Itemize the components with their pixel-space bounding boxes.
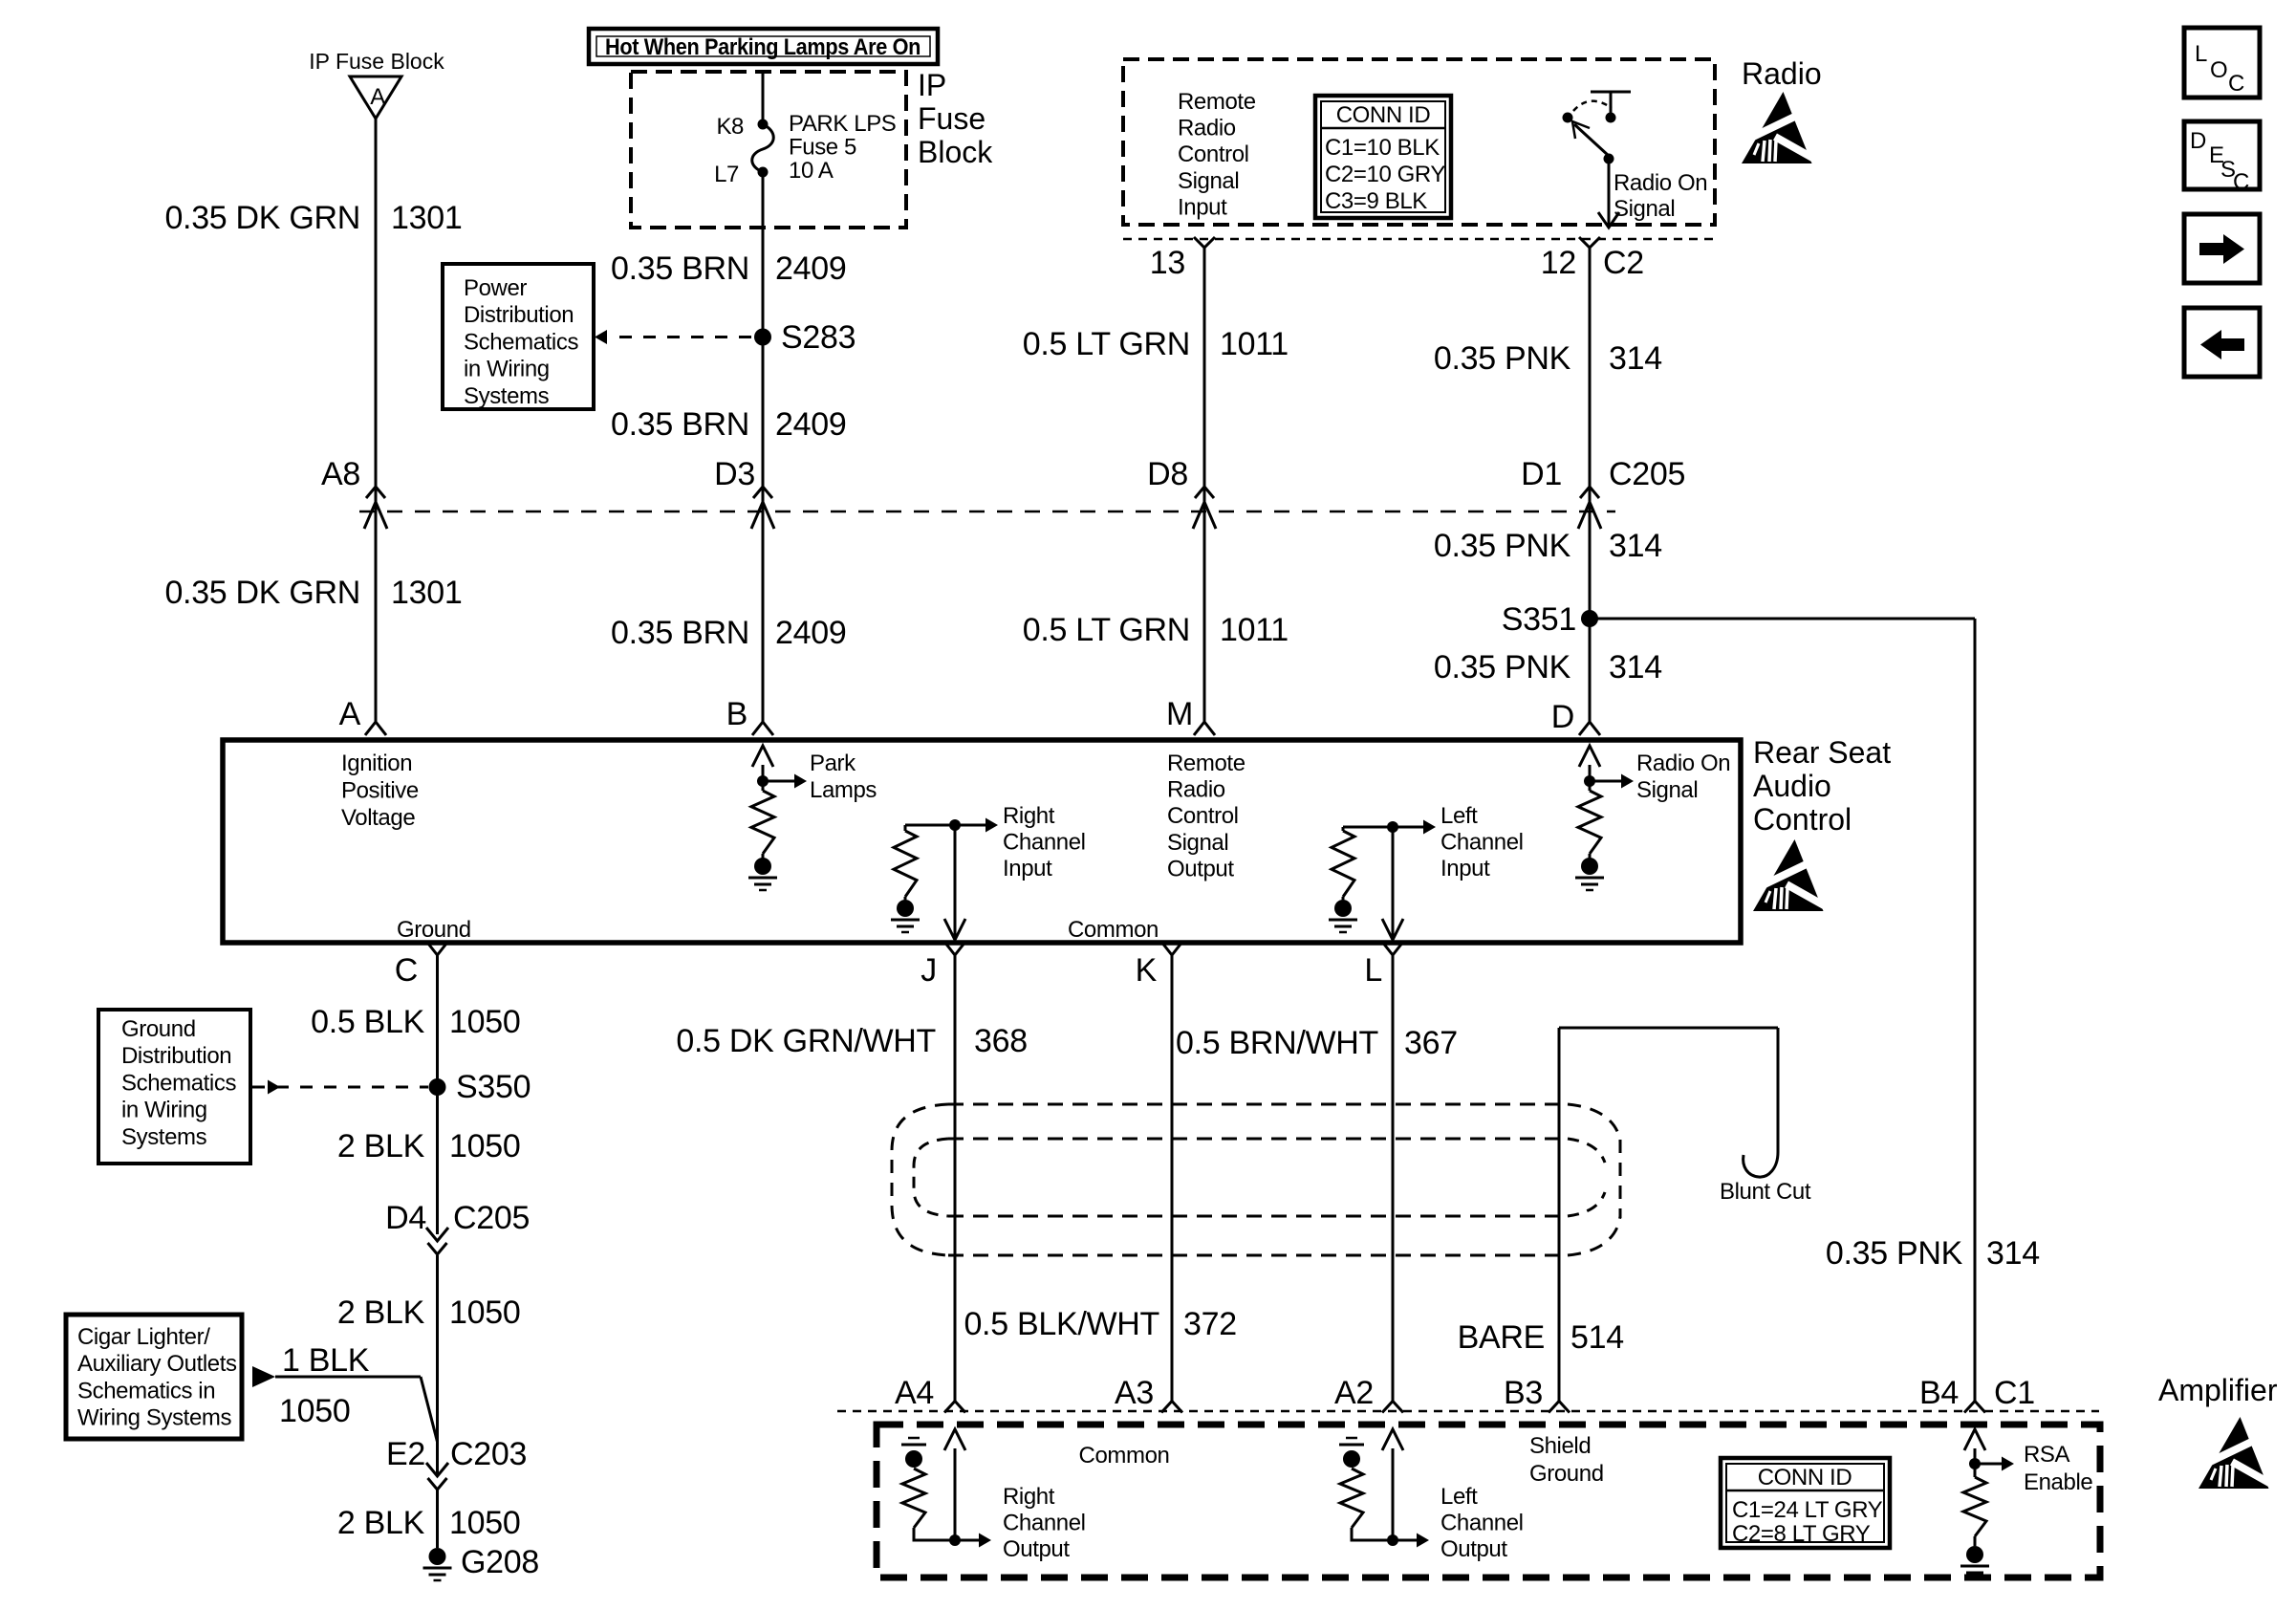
svg-text:D8: D8 xyxy=(1147,456,1188,492)
svg-text:Signal: Signal xyxy=(1614,196,1675,222)
svg-text:10 A: 10 A xyxy=(789,158,834,184)
svg-text:C1=24 LT GRY: C1=24 LT GRY xyxy=(1732,1497,1883,1523)
svg-text:314: 314 xyxy=(1609,340,1662,377)
svg-text:Control: Control xyxy=(1167,803,1239,829)
svg-text:C: C xyxy=(395,952,418,989)
svg-text:C2=8 LT GRY: C2=8 LT GRY xyxy=(1732,1521,1871,1547)
svg-text:D4: D4 xyxy=(385,1200,426,1236)
svg-text:314: 314 xyxy=(1609,649,1662,685)
svg-text:Signal: Signal xyxy=(1636,777,1698,803)
svg-text:C3=9 BLK: C3=9 BLK xyxy=(1325,188,1427,214)
svg-text:0.5 LT GRN: 0.5 LT GRN xyxy=(1023,326,1190,362)
svg-text:Enable: Enable xyxy=(2024,1469,2092,1495)
svg-text:Systems: Systems xyxy=(464,383,550,409)
svg-text:368: 368 xyxy=(974,1023,1028,1059)
svg-text:IP: IP xyxy=(918,68,946,102)
svg-text:Ground: Ground xyxy=(1529,1461,1604,1487)
svg-text:0.35 BRN: 0.35 BRN xyxy=(611,250,749,287)
svg-text:0.5 BRN/WHT: 0.5 BRN/WHT xyxy=(1176,1025,1378,1061)
svg-text:Channel: Channel xyxy=(1003,1511,1086,1536)
svg-text:314: 314 xyxy=(1986,1235,2040,1272)
svg-text:G208: G208 xyxy=(461,1544,539,1580)
svg-text:1011: 1011 xyxy=(1220,612,1289,648)
svg-text:Radio: Radio xyxy=(1742,56,1822,91)
svg-text:Common: Common xyxy=(1068,917,1159,943)
svg-text:1050: 1050 xyxy=(449,1004,520,1040)
svg-text:Block: Block xyxy=(918,135,993,169)
svg-text:514: 514 xyxy=(1570,1319,1624,1356)
svg-text:Schematics in: Schematics in xyxy=(77,1378,215,1403)
svg-text:0.35 BRN: 0.35 BRN xyxy=(611,615,749,651)
svg-text:Amplifier: Amplifier xyxy=(2158,1373,2278,1407)
svg-text:Remote: Remote xyxy=(1167,751,1245,776)
svg-text:A: A xyxy=(370,84,385,110)
svg-text:1050: 1050 xyxy=(449,1128,520,1164)
svg-text:Input: Input xyxy=(1440,856,1490,881)
svg-text:PARK LPS: PARK LPS xyxy=(789,111,896,137)
svg-text:Radio On: Radio On xyxy=(1636,751,1730,776)
svg-text:1301: 1301 xyxy=(391,575,462,611)
svg-text:Lamps: Lamps xyxy=(810,777,877,803)
svg-text:Input: Input xyxy=(1178,194,1227,220)
svg-text:Signal: Signal xyxy=(1178,168,1239,194)
svg-text:Channel: Channel xyxy=(1440,1511,1524,1536)
svg-text:0.35 PNK: 0.35 PNK xyxy=(1434,340,1571,377)
svg-text:C2: C2 xyxy=(1603,245,1644,281)
svg-text:Audio: Audio xyxy=(1753,769,1831,803)
svg-text:S351: S351 xyxy=(1502,601,1576,638)
svg-text:E2: E2 xyxy=(386,1436,425,1472)
svg-text:S283: S283 xyxy=(781,319,856,356)
svg-text:B: B xyxy=(726,696,747,732)
svg-text:2409: 2409 xyxy=(775,615,846,651)
svg-text:Schematics: Schematics xyxy=(464,329,578,355)
svg-text:Fuse: Fuse xyxy=(918,101,986,136)
svg-text:Schematics: Schematics xyxy=(121,1070,236,1096)
svg-text:0.5 LT GRN: 0.5 LT GRN xyxy=(1023,612,1190,648)
svg-text:Radio: Radio xyxy=(1167,777,1225,803)
svg-text:2 BLK: 2 BLK xyxy=(337,1295,425,1331)
svg-text:Common: Common xyxy=(1079,1443,1170,1469)
svg-text:Positive: Positive xyxy=(341,777,419,803)
svg-text:B4: B4 xyxy=(1919,1375,1959,1411)
svg-text:Ignition: Ignition xyxy=(341,751,412,776)
svg-text:S350: S350 xyxy=(456,1069,531,1105)
svg-text:C2=10 GRY: C2=10 GRY xyxy=(1325,162,1445,187)
svg-text:D3: D3 xyxy=(714,456,755,492)
svg-text:Hot When Parking Lamps Are On: Hot When Parking Lamps Are On xyxy=(605,34,921,60)
svg-text:367: 367 xyxy=(1404,1025,1458,1061)
svg-text:Right: Right xyxy=(1003,803,1055,829)
svg-text:Blunt Cut: Blunt Cut xyxy=(1720,1179,1811,1205)
svg-text:L: L xyxy=(1364,952,1382,989)
svg-text:2 BLK: 2 BLK xyxy=(337,1128,425,1164)
svg-text:2409: 2409 xyxy=(775,250,846,287)
svg-text:CONN ID: CONN ID xyxy=(1336,102,1431,128)
svg-text:1050: 1050 xyxy=(279,1393,350,1429)
svg-text:C: C xyxy=(2233,169,2249,195)
svg-text:K: K xyxy=(1136,952,1158,989)
svg-text:0.35 BRN: 0.35 BRN xyxy=(611,406,749,443)
svg-text:A3: A3 xyxy=(1115,1375,1154,1411)
svg-text:Power: Power xyxy=(464,275,527,301)
svg-text:CONN ID: CONN ID xyxy=(1758,1465,1852,1490)
svg-text:C1: C1 xyxy=(1994,1375,2035,1411)
svg-text:Rear Seat: Rear Seat xyxy=(1753,735,1891,770)
svg-text:Shield: Shield xyxy=(1529,1433,1591,1459)
svg-text:D1: D1 xyxy=(1521,456,1562,492)
svg-text:B3: B3 xyxy=(1504,1375,1543,1411)
svg-text:1050: 1050 xyxy=(449,1505,520,1541)
svg-text:Control: Control xyxy=(1178,141,1249,167)
svg-text:Output: Output xyxy=(1440,1536,1507,1562)
svg-text:Right: Right xyxy=(1003,1484,1055,1510)
svg-text:C203: C203 xyxy=(450,1436,527,1472)
svg-text:Wiring Systems: Wiring Systems xyxy=(77,1405,231,1431)
svg-text:D: D xyxy=(2190,128,2206,154)
svg-text:1050: 1050 xyxy=(449,1295,520,1331)
svg-text:Auxiliary Outlets: Auxiliary Outlets xyxy=(77,1351,237,1377)
svg-text:A: A xyxy=(339,696,361,732)
svg-text:RSA: RSA xyxy=(2024,1442,2070,1468)
svg-text:D: D xyxy=(1551,699,1574,735)
svg-text:0.35 DK GRN: 0.35 DK GRN xyxy=(164,575,360,611)
svg-text:Ground: Ground xyxy=(121,1016,196,1042)
svg-text:Radio On: Radio On xyxy=(1614,170,1707,196)
svg-text:Signal: Signal xyxy=(1167,830,1228,856)
svg-text:Ground: Ground xyxy=(397,917,471,943)
svg-text:IP Fuse Block: IP Fuse Block xyxy=(309,49,444,74)
svg-text:Systems: Systems xyxy=(121,1124,207,1150)
svg-text:Voltage: Voltage xyxy=(341,805,415,831)
svg-text:Channel: Channel xyxy=(1440,830,1524,856)
svg-text:A8: A8 xyxy=(321,456,360,492)
svg-text:J: J xyxy=(921,952,937,989)
svg-text:Fuse 5: Fuse 5 xyxy=(789,135,856,161)
svg-text:K8: K8 xyxy=(716,114,744,140)
svg-text:A2: A2 xyxy=(1334,1375,1374,1411)
svg-text:Output: Output xyxy=(1167,856,1234,881)
svg-text:2409: 2409 xyxy=(775,406,846,443)
svg-text:C205: C205 xyxy=(1609,456,1685,492)
svg-text:13: 13 xyxy=(1150,245,1185,281)
svg-text:2 BLK: 2 BLK xyxy=(337,1505,425,1541)
svg-text:Distribution: Distribution xyxy=(464,302,574,328)
svg-text:Remote: Remote xyxy=(1178,89,1256,115)
svg-text:Park: Park xyxy=(810,751,856,776)
svg-text:0.35 PNK: 0.35 PNK xyxy=(1434,649,1571,685)
svg-text:Input: Input xyxy=(1003,856,1052,881)
svg-text:A4: A4 xyxy=(895,1375,934,1411)
svg-text:0.5 BLK: 0.5 BLK xyxy=(311,1004,424,1040)
svg-text:314: 314 xyxy=(1609,528,1662,564)
svg-text:0.5 DK GRN/WHT: 0.5 DK GRN/WHT xyxy=(676,1023,936,1059)
svg-text:C1=10 BLK: C1=10 BLK xyxy=(1325,135,1440,161)
svg-text:1011: 1011 xyxy=(1220,326,1289,362)
svg-text:Control: Control xyxy=(1753,802,1852,837)
svg-text:372: 372 xyxy=(1183,1306,1237,1342)
svg-text:in Wiring: in Wiring xyxy=(464,357,550,382)
svg-text:1301: 1301 xyxy=(391,200,462,236)
svg-text:Output: Output xyxy=(1003,1536,1070,1562)
svg-text:0.35 PNK: 0.35 PNK xyxy=(1434,528,1571,564)
svg-text:Left: Left xyxy=(1440,803,1478,829)
svg-text:Left: Left xyxy=(1440,1484,1478,1510)
svg-text:0.35 DK GRN: 0.35 DK GRN xyxy=(164,200,360,236)
svg-text:C: C xyxy=(2228,71,2244,97)
svg-text:in Wiring: in Wiring xyxy=(121,1098,207,1123)
svg-text:Distribution: Distribution xyxy=(121,1043,231,1069)
svg-text:12: 12 xyxy=(1541,245,1576,281)
svg-text:O: O xyxy=(2210,57,2227,83)
svg-text:BARE: BARE xyxy=(1458,1319,1545,1356)
svg-text:0.5 BLK/WHT: 0.5 BLK/WHT xyxy=(964,1306,1159,1342)
svg-text:0.35 PNK: 0.35 PNK xyxy=(1826,1235,1963,1272)
svg-text:Cigar Lighter/: Cigar Lighter/ xyxy=(77,1324,210,1350)
svg-text:C205: C205 xyxy=(453,1200,530,1236)
svg-text:M: M xyxy=(1166,696,1193,732)
svg-text:L7: L7 xyxy=(714,162,739,187)
svg-text:L: L xyxy=(2195,41,2207,67)
svg-text:1 BLK: 1 BLK xyxy=(282,1342,370,1379)
svg-text:Channel: Channel xyxy=(1003,830,1086,856)
svg-text:Radio: Radio xyxy=(1178,116,1236,141)
